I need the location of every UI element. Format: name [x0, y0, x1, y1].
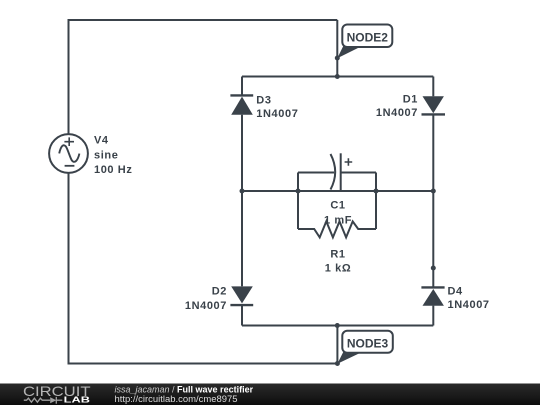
node NODE3 bubble	[337, 331, 392, 364]
junction dot load loop right	[374, 189, 379, 194]
svg-text:1 kΩ: 1 kΩ	[325, 263, 352, 275]
wire left branch middle to D2	[241, 191, 243, 286]
wire load loop left vertical	[297, 173, 299, 230]
diode D2	[230, 286, 253, 305]
wire middle rail	[242, 190, 433, 192]
junction dot bottom rail	[335, 323, 340, 328]
capacitor C1	[331, 153, 353, 191]
svg-text:D2: D2	[212, 286, 227, 298]
C1 label	[324, 200, 352, 227]
wire load loop right vertical	[375, 173, 377, 230]
C1 curved plate	[331, 154, 336, 190]
V4 plus sign	[64, 137, 74, 146]
D4 label	[448, 286, 490, 312]
voltage source V4 circle	[49, 134, 88, 173]
node NODE2 bubble	[337, 25, 392, 59]
V4 label	[94, 135, 132, 177]
R1 label	[325, 249, 352, 275]
junction dot load loop left	[296, 189, 301, 194]
wire capacitor left lead	[298, 172, 334, 174]
CircuitLab logo resistor-diode mark	[24, 397, 63, 404]
svg-text:http://circuitlab.com/cme8975: http://circuitlab.com/cme8975	[115, 394, 238, 404]
junction dot top rail	[335, 74, 340, 79]
diode D3	[230, 95, 253, 114]
resistor R1	[298, 221, 376, 237]
D3 label	[256, 95, 298, 121]
svg-text:issa_jacaman / Full wave recti: issa_jacaman / Full wave rectifier	[115, 385, 254, 395]
svg-text:1N4007: 1N4007	[256, 108, 298, 120]
junction dot NODE3 tail	[335, 361, 340, 366]
wire capacitor right lead	[341, 172, 376, 174]
wire right branch above D1	[432, 77, 434, 97]
wire bottom rail	[242, 325, 433, 327]
wire right branch below D4	[432, 306, 434, 326]
wire NODE3 stem	[336, 326, 338, 364]
svg-text:C1: C1	[330, 200, 345, 212]
svg-text:1N4007: 1N4007	[185, 300, 227, 312]
svg-text:1N4007: 1N4007	[448, 299, 490, 311]
D1 label	[376, 94, 418, 120]
wire bottom outer: source bottom lead along bottom	[69, 173, 338, 364]
junction dot at NODE2 tail	[335, 56, 340, 61]
junction dot right branch middle rail	[431, 189, 436, 194]
junction dot right branch above D4	[431, 266, 436, 271]
diode D1	[422, 96, 446, 114]
wire left branch D3 to middle	[241, 115, 243, 191]
C1 polarity plus	[345, 158, 353, 166]
wire top outer: source top lead to top-right corner	[69, 20, 338, 135]
svg-text:D4: D4	[448, 286, 464, 298]
V4 minus sign	[65, 165, 75, 167]
junction dot left branch middle rail	[240, 189, 245, 194]
C1 straight plate	[340, 153, 342, 191]
wire top rail	[242, 76, 433, 78]
svg-text:NODE2: NODE2	[347, 31, 389, 45]
svg-text:100 Hz: 100 Hz	[94, 164, 132, 176]
svg-text:D3: D3	[256, 95, 271, 107]
svg-text:LAB: LAB	[64, 396, 91, 405]
wire right branch D1 to middle	[432, 114, 434, 191]
svg-text:1N4007: 1N4007	[376, 107, 418, 119]
svg-text:D1: D1	[403, 94, 418, 106]
D2 label	[185, 286, 227, 313]
footer black bar	[0, 384, 540, 405]
wire left branch below D2	[241, 305, 243, 325]
svg-text:sine: sine	[94, 149, 118, 161]
svg-text:NODE3: NODE3	[347, 337, 389, 351]
V4 sine wave	[59, 145, 79, 162]
diode D4	[421, 287, 444, 305]
wire NODE2 stem	[336, 20, 338, 77]
wire left branch above D3	[241, 77, 243, 96]
svg-text:R1: R1	[330, 249, 345, 261]
wire right branch middle to D4	[432, 191, 434, 287]
svg-text:V4: V4	[94, 135, 109, 147]
